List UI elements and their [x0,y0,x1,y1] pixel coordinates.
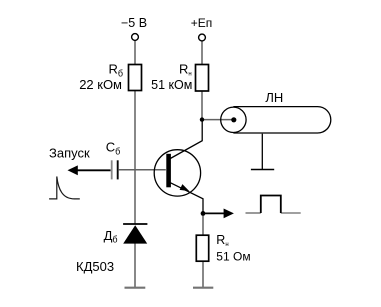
svg-text:Запуск: Запуск [49,145,90,160]
svg-text:+Еп: +Еп [191,16,213,30]
svg-text:КД503: КД503 [76,259,114,274]
svg-text:51 Ом: 51 Ом [216,249,250,263]
svg-text:22 кОм: 22 кОм [79,77,122,92]
svg-text:51 кОм: 51 кОм [151,78,192,92]
svg-text:−5 В: −5 В [121,16,147,30]
svg-text:ЛН: ЛН [265,90,283,105]
